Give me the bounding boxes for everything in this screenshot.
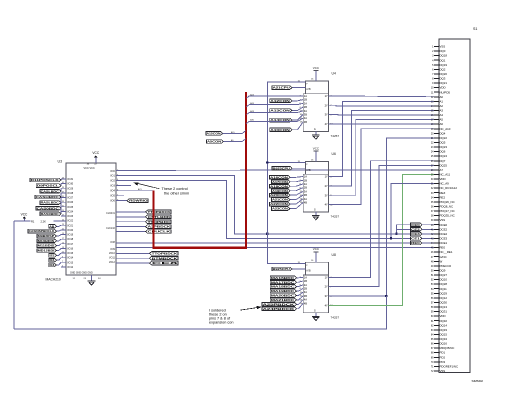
net label MA16BDC (U8 input) [270, 276, 303, 280]
U3 I/O4 wire to red node A21 [116, 190, 154, 192]
svg-text:DES: DES [49, 253, 54, 257]
svg-text:DE8: DE8 [49, 263, 54, 267]
S1 pin 6 DQ2 [432, 67, 446, 71]
svg-text:DQ20: DQ20 [439, 72, 447, 76]
S1 pin 30 VDD [431, 177, 446, 181]
U3 right pin I/O5 name [110, 194, 118, 197]
svg-text:1B: 1B [304, 178, 307, 182]
wire tap A24 from red bus to U4 1A [246, 93, 303, 98]
U6 input pin 4B [300, 200, 308, 204]
S1 pin 10 VDD [431, 86, 446, 90]
svg-text:A21CPU: A21CPU [273, 86, 290, 90]
svg-text:A'/B: A'/B [306, 270, 311, 273]
svg-text:23: 23 [62, 224, 64, 226]
svg-text:DQ21: DQ21 [439, 81, 447, 85]
wire tap A30 from red bus to U4 4A [246, 118, 303, 124]
U3 left pin I/O13 stub [61, 261, 74, 264]
net label A21CPU on U4 A'/B [272, 86, 305, 90]
wire U6 3Y to S1 pin 17 [329, 120, 434, 196]
svg-text:W: W [439, 259, 442, 263]
U6 input pin 1A [300, 175, 308, 179]
svg-text:DQ31: DQ31 [439, 310, 447, 314]
S1 pin 72 VSS [431, 369, 445, 373]
svg-text:DQ22: DQ22 [439, 136, 447, 140]
wire U6 2Y to S1 pin 15 [329, 110, 434, 185]
S1 pin 28 A7 [431, 168, 444, 172]
svg-text:4A: 4A [304, 298, 307, 302]
svg-text:2B: 2B [304, 105, 307, 109]
svg-text:VCC: VCC [21, 212, 28, 216]
svg-text:4Y: 4Y [325, 203, 328, 207]
svg-text:33: 33 [62, 201, 64, 203]
svg-text:DQ2: DQ2 [439, 67, 445, 71]
svg-text:PDQ8_NC: PDQ8_NC [439, 205, 453, 209]
select chain wire (pin 15 of U4/U6/U8) [267, 82, 305, 263]
svg-text:1Y: 1Y [325, 94, 328, 98]
annotation: I soldered these 2 on pins 7 & 8 of expansion con [209, 306, 262, 325]
net label MA20BDC (U8 input) [270, 292, 303, 297]
wire stub CE column vertical [396, 225, 398, 234]
wire CE column to DCE2 box [397, 228, 411, 230]
svg-text:I/O28: I/O28 [67, 192, 74, 195]
net label MA21BDC (U8 input) [270, 296, 303, 302]
svg-text:CE0: CE0 [411, 223, 420, 227]
svg-text:PD2: PD2 [439, 355, 445, 359]
S1 pin 40 DCE0 [431, 223, 448, 227]
svg-text:4B: 4B [304, 200, 307, 204]
svg-text:MA16BDC: MA16BDC [271, 276, 296, 280]
svg-text:A0: A0 [439, 95, 443, 99]
net label CPUCLK (U3 right middle) [116, 230, 172, 234]
U3 left pin I/O12 stub [61, 266, 74, 269]
U8 input pin 1B [300, 279, 308, 283]
svg-text:GND GND GND GND: GND GND GND GND [70, 273, 93, 275]
svg-text:DQ13: DQ13 [439, 305, 447, 309]
svg-text:I/O15: I/O15 [67, 252, 74, 255]
S1 pin 23 DQ23 [431, 145, 448, 149]
svg-text:2Y: 2Y [325, 103, 328, 107]
svg-text:I/O10: I/O10 [109, 252, 116, 255]
svg-text:I/O11: I/O11 [109, 257, 115, 260]
svg-text:4B: 4B [304, 301, 307, 305]
U8 input pin 4A [300, 298, 308, 302]
svg-text:I/O6: I/O6 [110, 200, 115, 203]
svg-text:VCC: VCC [313, 146, 320, 150]
S1 pin 44 DCE1 [431, 241, 448, 245]
net label A5CON (bus entry) [207, 139, 246, 144]
annotation: These 2 control the other simm [133, 182, 189, 195]
wire T1 U3 I/O1 down to CE column [116, 176, 397, 234]
S1 pin 46 NC__RE1 [431, 250, 453, 254]
svg-text:3B: 3B [304, 112, 307, 116]
svg-text:7: 7 [62, 261, 63, 263]
svg-text:I/O16: I/O16 [67, 247, 74, 250]
net label RE0 at S1 pin 44 [411, 241, 434, 245]
S1 pin 3 DQ18 [432, 54, 447, 58]
svg-text:A2: A2 [439, 104, 443, 108]
svg-text:NC_A9: NC_A9 [439, 182, 449, 186]
net label D9POSCL (U3 left) [36, 184, 61, 188]
svg-text:PDQ35_NC: PDQ35_NC [439, 214, 454, 218]
svg-text:2A: 2A [304, 101, 307, 105]
svg-text:A21CON: A21CON [272, 198, 288, 202]
svg-text:PDECC0: PDECC0 [439, 264, 451, 268]
U3 left pin I/O27 stub [61, 196, 74, 199]
svg-text:3A: 3A [304, 109, 307, 113]
svg-text:B925CPU: B925CPU [273, 166, 290, 170]
wire tap A28 from red bus to U4 3A [246, 110, 303, 115]
svg-text:I/O27: I/O27 [67, 197, 74, 200]
U6 input pin 3A [300, 189, 308, 193]
U4 input pin 3B [300, 112, 308, 116]
U4 select pin 15 and A'/B pin 1 names [298, 81, 311, 92]
svg-text:19: 19 [62, 233, 64, 235]
net label BTMBDCK (U3 lower right) [116, 256, 179, 260]
svg-text:I/O26: I/O26 [67, 201, 74, 204]
U8 input pin 4B [300, 301, 308, 305]
S1 pin 64 DQ15 [431, 332, 448, 336]
U6 input pin 2A [300, 182, 308, 186]
U6 input pin 1B [300, 178, 308, 182]
svg-text:1B: 1B [304, 98, 307, 102]
U3 VCC power symbol pin 44/22 [84, 151, 100, 170]
wire U6 1Y to S1 pin 13 [329, 101, 434, 176]
S1 pin 7 DQ20 [432, 72, 447, 76]
svg-text:DQ1: DQ1 [439, 58, 445, 62]
VCC symbol (R1 pullup) [21, 212, 28, 221]
svg-text:PDOREF1/NC: PDOREF1/NC [439, 364, 458, 368]
svg-text:3Y: 3Y [325, 294, 328, 298]
svg-text:2Y: 2Y [325, 285, 328, 289]
S1 pin 20 DQ4 [431, 131, 446, 135]
S1 pin 38 PDQ35_NC [431, 214, 455, 218]
U4 input pin 3A [300, 109, 308, 113]
S1 pin 21 DQ22 [431, 136, 448, 140]
net label DE8 (U3 lower left) [49, 262, 61, 267]
svg-text:A13CON: A13CON [270, 109, 290, 113]
svg-text:39: 39 [62, 187, 64, 189]
svg-text:DCE2: DCE2 [439, 227, 447, 231]
svg-text:RE0: RE0 [411, 241, 420, 245]
net label A18CON (U6 input) [270, 184, 304, 188]
svg-text:2A: 2A [304, 283, 307, 287]
U6 input pin 4A [300, 197, 308, 201]
U4 VCC power pin 16 [311, 66, 320, 81]
U3 right pin I/O3 name [110, 184, 118, 187]
net label M11BDIS (U3 lower left) [37, 244, 61, 248]
net label A17CON (U6 input) [272, 180, 304, 184]
S1 pin 37 PDQ17_NC [431, 209, 455, 213]
svg-text:G: G [314, 128, 316, 131]
svg-text:U3: U3 [58, 159, 63, 163]
svg-text:I/O3: I/O3 [110, 185, 115, 188]
svg-text:RE0: RE0 [439, 246, 445, 250]
S1 pin 34 RE2 [431, 195, 446, 199]
U3 left pin I/O29 stub [61, 187, 74, 190]
SIMM connector S1 body [439, 27, 484, 383]
U6 output pin 3Y [325, 193, 333, 197]
junction dot select chain at U6 [266, 161, 268, 163]
U4 input pin 1A [300, 94, 308, 98]
net label B925CPU on U8 A'/B [272, 267, 305, 271]
svg-text:I/O13: I/O13 [67, 261, 74, 264]
junction dot T1 x select chain [266, 233, 268, 235]
U3 left pin I/O30 stub [61, 182, 74, 185]
S1 pin 48 W [431, 259, 443, 263]
svg-text:TTOPBDC: TTOPBDC [148, 220, 172, 224]
wire tap A26 from red bus to U4 2A [246, 102, 303, 107]
wire U4 1Y to S1 pin 12 [329, 95, 434, 98]
svg-text:DQ23: DQ23 [439, 145, 447, 149]
svg-text:U4: U4 [332, 71, 336, 75]
svg-text:I/O24: I/O24 [67, 210, 74, 213]
svg-text:CASHBDC: CASHBDC [36, 195, 61, 199]
svg-text:MA18BDC: MA18BDC [271, 285, 296, 289]
net label CE8 (U3 lower right) [116, 261, 179, 265]
svg-text:I/O21: I/O21 [67, 224, 74, 227]
U8 input pin 3B [300, 294, 308, 298]
net label A3PBDCK (U3 right middle) [116, 225, 172, 229]
svg-text:A18CON: A18CON [270, 184, 288, 188]
net label A12CON (U4 input) [270, 99, 304, 103]
svg-text:2.2K: 2.2K [41, 220, 47, 224]
net label A21CON (U6 input) [272, 195, 304, 202]
S1 pin 4 DQ1 [432, 58, 446, 62]
net label A25PBDCK (U8 input) [262, 300, 303, 307]
net label A24PBDCK (U8 input) [262, 303, 303, 311]
svg-text:I/O29: I/O29 [67, 187, 74, 190]
svg-text:expansion con: expansion con [209, 321, 234, 325]
U3 right pin I/O6 name [110, 199, 118, 202]
svg-text:PDQ26_NC: PDQ26_NC [439, 200, 454, 204]
net label CE1 at S1 pin 43 [411, 236, 434, 240]
U3 left pin I/O25 stub [61, 205, 74, 208]
svg-text:1B: 1B [304, 279, 307, 283]
U3 ground symbol pins 12/23/34 [70, 273, 101, 286]
svg-text:37: 37 [62, 191, 64, 193]
wire U8 2Y to S1 pin 27 [329, 165, 434, 286]
svg-text:74257: 74257 [331, 215, 340, 219]
svg-text:M9BDISP: M9BDISP [38, 234, 55, 238]
U8 input pin 3A [300, 290, 308, 294]
net label CE0 at S1 pin 40 [411, 223, 434, 227]
svg-text:DQ34: DQ34 [439, 337, 447, 341]
svg-text:29: 29 [62, 210, 64, 212]
U3 left pin I/O23 stub [61, 215, 74, 218]
wire S1 pin 31 down to DCE3 row [391, 184, 434, 239]
U3 I/O3 stub (these-2 #1) [116, 185, 131, 187]
svg-text:3A: 3A [304, 189, 307, 193]
U3 left pin I/O26 stub [61, 201, 74, 204]
svg-text:DCE0: DCE0 [439, 223, 447, 227]
svg-text:A17CON: A17CON [272, 180, 288, 184]
S1 pin 1 VSS [432, 45, 445, 49]
svg-text:1Y: 1Y [325, 275, 328, 279]
svg-text:DQ16: DQ16 [439, 342, 447, 346]
net label RAS0BDC (U3 left) [40, 207, 61, 216]
wire U8 3Y to S1 pin 21 [329, 138, 434, 296]
S1 pin 22 DQ5 [431, 141, 446, 145]
svg-text:CASLBDC: CASLBDC [41, 189, 60, 193]
net label TTOPBDC (U3 right middle) [116, 220, 172, 224]
svg-text:DQ4: DQ4 [439, 131, 445, 135]
svg-text:DQ33: DQ33 [439, 328, 447, 332]
S1 pin 53 DQ28 [431, 282, 448, 286]
net label A22CON (U6 input) [270, 199, 304, 206]
svg-text:2B: 2B [304, 286, 307, 290]
net label M10BDIS (U3 lower left) [37, 239, 61, 243]
svg-text:CE1: CE1 [411, 236, 420, 240]
S1 pin 29 NC_A11 [431, 173, 451, 177]
svg-text:DQ18: DQ18 [439, 54, 447, 58]
S1 pin 17 A5 [431, 118, 444, 122]
S1 pin 9 DQ21 [432, 81, 447, 85]
svg-text:D9POSCL: D9POSCL [37, 184, 59, 188]
svg-text:CPUCLK: CPUCLK [148, 230, 172, 234]
svg-text:U6: U6 [332, 152, 336, 156]
U3 left pin I/O20 stub [61, 229, 74, 232]
U3 left pin I/O15 stub [61, 252, 74, 255]
svg-text:DQ10: DQ10 [439, 278, 447, 282]
wire U4 4Y to S1 pin 18 [329, 123, 434, 125]
U6 output pin 4Y [325, 203, 334, 207]
svg-text:PDQ17_NC: PDQ17_NC [439, 209, 454, 213]
S1 pin 43 DCE3 [431, 236, 448, 240]
U3 right CLK pin names [106, 212, 115, 264]
svg-text:RDWRIO: RDWRIO [129, 199, 148, 203]
wire CE column to DCE2b box [397, 233, 411, 235]
S1 pin 45 RE0 [431, 246, 446, 250]
S1 pin 68 PD1 [431, 351, 446, 355]
net label A19CON (U6 input) [272, 188, 304, 193]
svg-text:DQ30: DQ30 [439, 300, 447, 304]
svg-text:I/O12: I/O12 [67, 266, 74, 269]
svg-text:I/O2: I/O2 [110, 180, 115, 183]
net label MA19BDC (U8 input) [270, 288, 303, 293]
S1 pin 15 A3 [431, 109, 444, 113]
net label MA18BDC (U8 input) [270, 285, 303, 289]
U3 left pin I/O21 stub [61, 224, 74, 227]
svg-text:DQ3: DQ3 [439, 77, 445, 81]
net label TTOPBDCK (U3 lower right) [116, 251, 179, 255]
svg-text:MA19BDC: MA19BDC [271, 289, 296, 293]
svg-text:MA21BDC: MA21BDC [271, 298, 296, 302]
svg-text:M11BDIS: M11BDIS [38, 244, 55, 248]
S1 pin 27 DQ25 [431, 163, 448, 167]
svg-text:DQ24: DQ24 [439, 154, 447, 158]
svg-text:RASLBDC: RASLBDC [41, 201, 60, 205]
U4 GND pin 8 ground symbol [312, 128, 320, 139]
wire U3 I/O0 to S1 pin 28 [116, 169, 434, 172]
net label CASHBDC (U3 left) [35, 193, 61, 199]
svg-text:3A: 3A [304, 290, 307, 294]
wire T2 U3 I/O2 down to DCE3 row [116, 181, 411, 239]
svg-text:I/O30: I/O30 [67, 183, 74, 186]
svg-text:DQ7: DQ7 [439, 159, 445, 163]
S1 pin 8 DQ3 [432, 77, 446, 81]
svg-text:3B: 3B [304, 193, 307, 197]
S1 pin 19 NC_A10 [431, 127, 451, 131]
svg-text:I/O23: I/O23 [67, 215, 74, 218]
U3 right pin I/O2 name [110, 179, 118, 182]
svg-text:11: 11 [62, 252, 64, 254]
U4 input pin 1B [300, 98, 308, 102]
U3 left pin I/O17 stub [61, 242, 74, 245]
svg-text:DQ29: DQ29 [439, 291, 447, 295]
U6 output pin 2Y [325, 184, 333, 188]
svg-text:G/NC: G/NC [439, 255, 446, 259]
net label RDWRIO [116, 199, 149, 203]
S1 pin 14 A2 [431, 104, 444, 108]
S1 pin 26 DQ7 [431, 159, 446, 163]
svg-text:DQ25: DQ25 [439, 163, 447, 167]
U8 input pin 1A [300, 275, 308, 279]
svg-text:A'/B: A'/B [306, 88, 311, 91]
S1 pin 59 DQ31 [431, 310, 448, 314]
U3 left pin I/O28 stub [61, 191, 74, 194]
S1 pin 32 NC_RC3/A12 [431, 186, 458, 190]
U6 input pin 2B [300, 186, 308, 190]
S1 pin 25 DQ24 [431, 154, 448, 158]
net label CE3 at S1 pin 42 [411, 232, 434, 236]
U3 left pin I/O31 stub [61, 178, 74, 181]
svg-text:17: 17 [62, 238, 64, 240]
net label CAS0BDC (U3 left) [36, 202, 61, 210]
svg-text:VCC: VCC [313, 247, 320, 251]
S1 pin 13 A1 [431, 99, 444, 103]
svg-text:A6: A6 [439, 122, 443, 126]
net label A13CON (U4 input) [270, 107, 304, 113]
svg-text:CAS0BDC: CAS0BDC [37, 206, 61, 210]
svg-text:I/O25: I/O25 [67, 206, 74, 209]
svg-text:CLK0/I1: CLK0/I1 [106, 212, 115, 215]
svg-text:SIMM02: SIMM02 [472, 379, 484, 383]
svg-text:A7: A7 [439, 168, 443, 172]
svg-text:A5: A5 [439, 118, 443, 122]
S1 pin 69 PD2 [431, 355, 446, 359]
S1 pin 33 REZ [431, 191, 446, 195]
U4 input pin 4B [300, 120, 308, 124]
svg-text:4Y: 4Y [325, 122, 328, 126]
S1 pin 35 PDQ26_NC [431, 200, 455, 204]
svg-text:NC_A11: NC_A11 [439, 173, 450, 177]
svg-text:A20CON: A20CON [270, 193, 288, 197]
select chain tap to U6 pin 15 [267, 162, 305, 164]
U8 input pin 2B [300, 286, 308, 290]
svg-text:4Y: 4Y [325, 303, 328, 307]
U4 output pin 3Y [325, 113, 333, 117]
junction dot U8 3Y / bottom wire [385, 295, 387, 297]
svg-text:1A: 1A [304, 175, 307, 179]
svg-text:A23CON: A23CON [272, 207, 288, 211]
S1 pin 71 PDOREF1/NC [431, 364, 458, 368]
svg-text:VSS: VSS [439, 218, 445, 222]
wire CE column to DCE0 box [397, 224, 411, 226]
U8 output pin 2Y [325, 285, 333, 289]
svg-text:TTOPBDCK: TTOPBDCK [148, 210, 172, 214]
svg-text:DQ28: DQ28 [439, 282, 447, 286]
net label A10CON (U4 input) [270, 122, 304, 132]
U3 left pin I/O19 stub [61, 233, 74, 236]
svg-text:2A: 2A [304, 182, 307, 186]
wire from R1 down left side [13, 221, 15, 329]
svg-text:PD3: PD3 [439, 360, 445, 364]
S1 pin 52 DQ10 [431, 278, 448, 282]
S1 pin 39 VSS [431, 218, 445, 222]
svg-text:DQ32: DQ32 [439, 319, 447, 323]
junction dot CE column [395, 233, 397, 235]
svg-text:MACH210: MACH210 [46, 278, 61, 282]
